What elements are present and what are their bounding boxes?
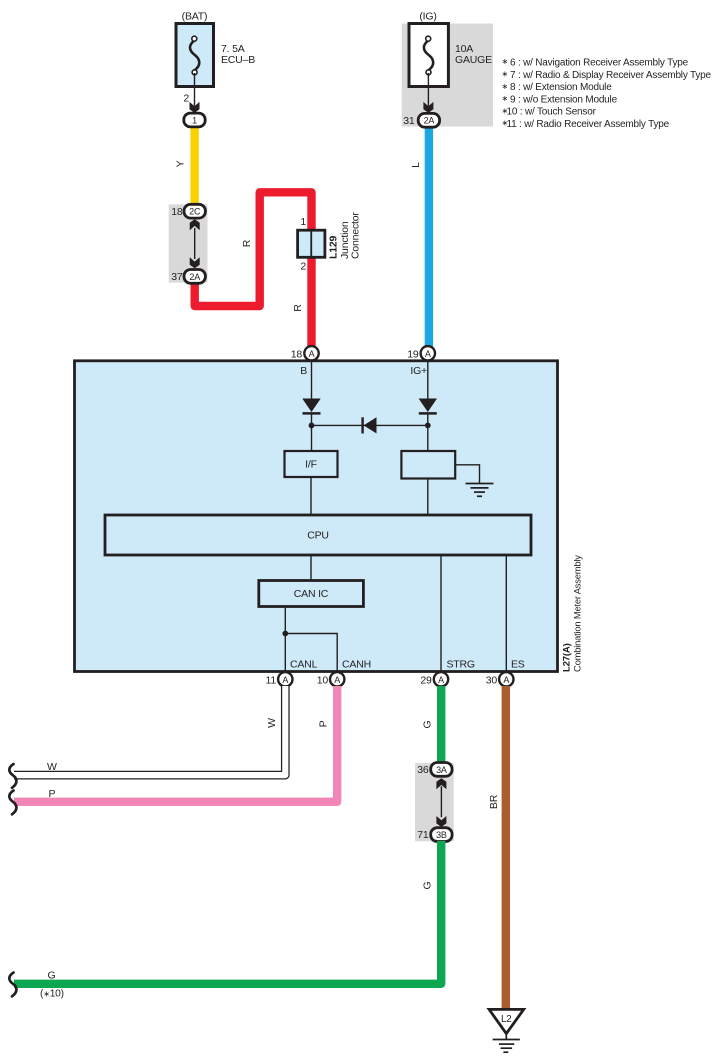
svg-text:P: P <box>49 788 56 800</box>
svg-text:L: L <box>410 162 422 168</box>
svg-text:2A: 2A <box>189 272 200 282</box>
wire BR label <box>488 794 500 809</box>
wire Y (yellow) <box>190 124 198 208</box>
svg-text:IG+: IG+ <box>410 365 427 377</box>
svg-text:Connector: Connector <box>350 212 362 259</box>
svg-text:2: 2 <box>183 93 189 105</box>
wire branch to CANH <box>285 634 337 672</box>
ES label <box>511 659 525 671</box>
I/F box <box>285 451 338 477</box>
wire CAN IC to CANL pin <box>284 607 286 672</box>
svg-text:I/F: I/F <box>305 459 317 471</box>
squiggle G end <box>9 973 16 997</box>
wire W horizontal label <box>47 761 57 773</box>
fuse ECU-B block (BAT) <box>176 11 255 87</box>
svg-text:18: 18 <box>171 206 183 218</box>
svg-text:71: 71 <box>417 829 429 841</box>
svg-text:L129: L129 <box>328 236 340 259</box>
svg-text:11: 11 <box>266 675 277 687</box>
wire L label <box>410 162 422 168</box>
svg-text:30: 30 <box>486 675 498 687</box>
CANH label <box>342 659 371 671</box>
connector oval 2C <box>184 204 205 218</box>
wire CPU to ES pin <box>505 555 507 671</box>
arrowhead into connector 1 <box>190 102 200 113</box>
regulator box (unlabeled) <box>401 451 455 479</box>
svg-text:A: A <box>309 349 315 359</box>
internal ground of regulator <box>455 465 493 497</box>
pin 11 (A) CANL <box>266 672 293 686</box>
Combination Meter Assembly label <box>572 555 583 672</box>
wire I/F to CPU <box>310 477 312 515</box>
STRG label <box>447 659 475 671</box>
svg-text:STRG: STRG <box>447 659 475 671</box>
svg-text:1: 1 <box>192 115 197 125</box>
pin 29 (A) STRG <box>420 672 448 686</box>
svg-text:3A: 3A <box>436 765 447 775</box>
fuse GAUGE junction block (IG) gray box <box>402 24 493 127</box>
svg-text:31: 31 <box>403 115 415 127</box>
svg-text:∗11 : w/ Radio Receiver Assemb: ∗11 : w/ Radio Receiver Assembly Type <box>502 119 670 130</box>
svg-text:CAN IC: CAN IC <box>294 588 329 600</box>
svg-text:G: G <box>48 970 56 982</box>
wire BR (brown, ES) <box>502 686 510 1008</box>
squiggle P end <box>9 791 16 815</box>
wire node to I/F <box>311 425 313 451</box>
svg-text:2: 2 <box>300 260 306 272</box>
L27(A) designator <box>562 643 573 672</box>
arrowhead into 2A <box>423 102 433 113</box>
connector oval 3A <box>431 763 452 777</box>
svg-text:W: W <box>47 761 57 773</box>
svg-text:A: A <box>282 675 288 685</box>
connector oval 2A (IG) <box>418 113 439 127</box>
wire R label upper <box>241 239 253 247</box>
connector oval 2A <box>184 270 205 284</box>
squiggle W end <box>9 764 16 788</box>
svg-text:GAUGE: GAUGE <box>455 54 492 66</box>
wire CPU to STRG pin <box>440 555 442 671</box>
svg-text:A: A <box>503 675 509 685</box>
node dot left <box>309 423 315 429</box>
CAN IC box <box>259 581 364 607</box>
svg-text:CANL: CANL <box>290 659 318 671</box>
pin 37 label <box>171 271 183 283</box>
svg-text:A: A <box>334 675 340 685</box>
fuse GAUGE symbol box <box>409 11 492 87</box>
svg-text:3B: 3B <box>436 830 447 840</box>
svg-text:(∗10): (∗10) <box>40 989 64 1000</box>
L129 designator label <box>328 236 340 259</box>
wire G upper label <box>422 720 434 728</box>
wire W (white, CANL) <box>14 686 285 775</box>
svg-text:2C: 2C <box>189 207 201 217</box>
notes list <box>502 57 712 130</box>
svg-text:ES: ES <box>511 659 525 671</box>
wire R (red) <box>195 192 312 347</box>
svg-text:(IG): (IG) <box>419 11 436 23</box>
wire from D1 to node <box>311 413 313 425</box>
svg-text:B: B <box>300 365 307 377</box>
pin 36 label <box>417 764 429 776</box>
double arrow between 2C and 2A <box>190 219 200 268</box>
wire P (pink, CANH) <box>14 686 337 802</box>
node dot right <box>425 423 431 429</box>
wire W vertical label <box>266 718 278 728</box>
wire P horizontal label <box>49 788 56 800</box>
diode D1 <box>302 399 320 414</box>
wire from D2 to node <box>427 413 429 425</box>
svg-text:A: A <box>438 675 444 685</box>
Junction Connector label <box>339 212 362 259</box>
svg-text:37: 37 <box>171 271 183 283</box>
svg-text:BR: BR <box>488 794 500 809</box>
svg-text:∗6 : w/ Navigation Receiver As: ∗6 : w/ Navigation Receiver Assembly Typ… <box>502 57 689 68</box>
svg-text:19: 19 <box>407 349 419 361</box>
svg-text:G: G <box>422 881 434 889</box>
wire regulator to CPU <box>427 479 429 516</box>
node dot CAN branch <box>282 631 288 637</box>
svg-text:P: P <box>318 720 330 727</box>
wire R label lower <box>292 304 304 312</box>
junction connector L129 <box>298 230 325 257</box>
cross wire between nodes <box>312 424 428 426</box>
connector IF1 gray box (2C/2A) <box>169 204 208 282</box>
wire B internal <box>311 362 313 399</box>
svg-text:L2: L2 <box>501 1014 512 1025</box>
double arrow between 3A and 3B <box>436 778 446 827</box>
pin 31 label <box>403 115 415 127</box>
wire L (light blue) <box>425 124 433 347</box>
pin 30 (A) ES <box>486 672 514 686</box>
svg-text:∗7 : w/ Radio & Display Receiv: ∗7 : w/ Radio & Display Receiver Assembl… <box>502 70 712 81</box>
svg-text:W: W <box>266 718 278 728</box>
node B label <box>300 365 307 377</box>
svg-text:R: R <box>292 304 304 312</box>
connector IH1 gray box (3A/3B) <box>415 763 454 841</box>
svg-text:CPU: CPU <box>307 530 329 542</box>
pin 2 label of L129 <box>300 260 306 272</box>
svg-text:∗9 : w/o Extension Module: ∗9 : w/o Extension Module <box>502 94 618 105</box>
line from fuse to pin 31 <box>427 73 429 106</box>
diode D2 <box>419 399 437 414</box>
wire CPU to CAN IC <box>310 555 312 581</box>
wire G upper (green, STRG) <box>437 686 445 764</box>
pin 19 (A) at block top <box>407 346 435 360</box>
pin 18 label <box>171 206 183 218</box>
node IG+ label <box>410 365 427 377</box>
pin 18 (A) at block top <box>291 346 319 360</box>
svg-text:1: 1 <box>300 216 306 228</box>
pin 1 label of L129 <box>300 216 306 228</box>
wire P vertical label <box>318 720 330 727</box>
wire G horizontal label <box>48 970 56 982</box>
svg-text:G: G <box>422 720 434 728</box>
svg-text:R: R <box>241 239 253 247</box>
wire node to regulator box <box>427 425 429 451</box>
diode D3 (pointing left) <box>363 417 377 433</box>
pin 71 label <box>417 829 429 841</box>
svg-text:10: 10 <box>317 675 329 687</box>
svg-text:29: 29 <box>420 675 432 687</box>
connector oval 1 <box>184 113 205 127</box>
wire IG+ internal <box>427 362 429 399</box>
svg-text:Combination Meter Assembly: Combination Meter Assembly <box>572 555 583 672</box>
wire G lower vertical label <box>422 881 434 889</box>
svg-text:A: A <box>425 349 431 359</box>
(*10) annotation <box>40 989 64 1000</box>
connector oval 3B <box>431 828 452 842</box>
svg-text:(BAT): (BAT) <box>182 11 208 23</box>
svg-text:36: 36 <box>417 764 429 776</box>
wire Y label <box>175 160 187 167</box>
svg-text:2A: 2A <box>424 116 435 126</box>
CPU box <box>105 515 531 555</box>
combination meter assembly block L27(A) <box>75 361 558 672</box>
ground L2 <box>489 1009 524 1052</box>
svg-text:18: 18 <box>291 349 303 361</box>
wire G lower (green) <box>14 841 441 984</box>
svg-text:ECU–B: ECU–B <box>221 54 255 66</box>
CANL label <box>290 659 318 671</box>
pin 2 of fuse, line down <box>183 73 194 106</box>
svg-text:∗8 : w/ Extension Module: ∗8 : w/ Extension Module <box>502 82 613 93</box>
svg-text:CANH: CANH <box>342 659 371 671</box>
pin 10 (A) CANH <box>317 672 345 686</box>
svg-text:∗10 : w/ Touch Sensor: ∗10 : w/ Touch Sensor <box>502 106 597 117</box>
svg-text:Y: Y <box>175 160 187 167</box>
